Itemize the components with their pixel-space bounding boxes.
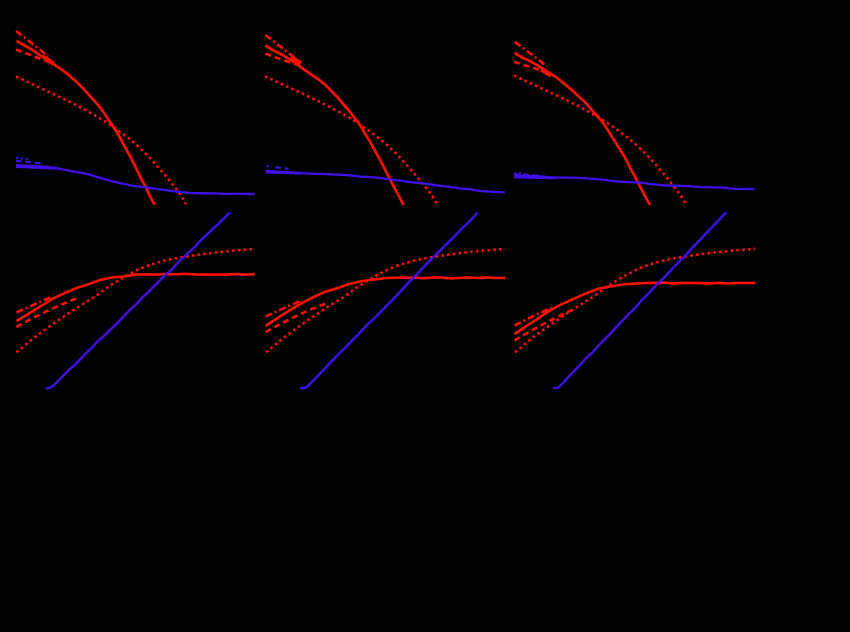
top blue dotted segment panel 3: [514, 172, 526, 175]
top red convergence blob panel 1: [43, 57, 53, 64]
bottom red dashed curve panel 1: [17, 298, 79, 327]
top red convergence blob panel 2: [291, 57, 301, 64]
top red dashed curve panel 1: [16, 50, 52, 64]
top blue band overlap panel 3: [514, 177, 556, 178]
top red dashed curve panel 2: [265, 54, 302, 66]
bottom red dotted curve panel 1: [17, 249, 255, 352]
top blue solid curve panel 1: [16, 165, 255, 194]
bottom red dash-dot curve panel 3: [515, 308, 553, 326]
top red dotted curve panel 1: [16, 77, 186, 205]
top red dash-dot curve panel 2: [265, 35, 297, 60]
top blue dashed segment panel 3: [514, 175, 541, 176]
top red solid curve panel 2: [266, 46, 404, 206]
top red dotted curve panel 3: [514, 76, 686, 205]
top blue dotted segment panel 1: [16, 158, 29, 159]
top blue dashed segment panel 2: [276, 167, 289, 169]
top red solid curve panel 1: [17, 41, 155, 205]
top red convergence blob panel 3: [541, 70, 551, 76]
top red solid curve panel 3: [515, 53, 651, 205]
top red dashed curve panel 3: [514, 62, 551, 74]
top red dash-dot curve panel 1: [16, 31, 48, 57]
bottom blue diagonal line panel 1: [51, 213, 230, 388]
top blue dashed segment panel 1: [16, 161, 43, 164]
bottom blue line foot panel 3: [553, 386, 559, 389]
bottom red dashed curve panel 3: [515, 309, 577, 341]
top red dash-dot curve panel 3: [515, 42, 547, 67]
bottom red dash-dot curve panel 2: [266, 300, 303, 316]
bottom blue line foot panel 1: [46, 386, 52, 389]
bottom red dotted curve panel 3: [515, 249, 755, 352]
top blue solid curve panel 3: [514, 176, 754, 189]
bottom blue diagonal line panel 2: [306, 213, 478, 388]
bottom red solid curve panel 2: [266, 277, 506, 326]
bottom red solid curve panel 1: [17, 274, 255, 321]
top blue dotted segment panel 2: [267, 165, 272, 168]
top blue band overlap panel 1: [16, 167, 58, 169]
bottom red solid curve panel 3: [515, 283, 756, 334]
bottom blue line foot panel 2: [300, 386, 306, 389]
top blue band overlap panel 2: [266, 172, 302, 173]
bottom red dashed curve panel 2: [266, 303, 328, 332]
bottom red dash-dot curve panel 1: [17, 296, 54, 312]
bottom blue diagonal line panel 3: [559, 213, 727, 388]
bottom red dotted curve panel 2: [266, 249, 505, 352]
top red dotted curve panel 2: [265, 76, 437, 204]
top blue solid curve panel 2: [266, 171, 505, 193]
